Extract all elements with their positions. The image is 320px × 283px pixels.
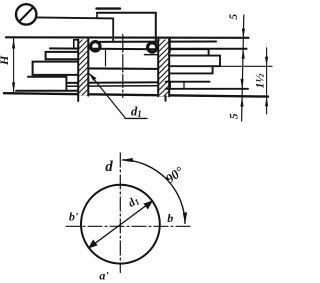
reference line for 1half [220,65,272,67]
clamp joint wire [96,13,98,18]
diameter arrow lower-left [88,240,98,249]
dim A arrow down at bottom ref [241,79,244,89]
diameter d1 arrow line [89,201,152,248]
indicator needle [20,8,33,21]
left step rect2 [33,62,89,75]
arc arrow right (points down) [183,212,187,224]
right rim edge vertical [169,38,171,53]
right bar2 [169,56,220,67]
middle line lower a [66,81,169,84]
right lower line b (bottom ref) [166,88,248,90]
right lower vertical 2 [183,82,185,89]
leader arrowhead [89,73,97,81]
stand bracket horizontal wire [97,12,156,14]
dim A arrow up at rim line [242,49,245,59]
right bar1 [170,49,209,55]
middle line lower b [66,85,158,88]
right lower vertical 1 [169,82,171,89]
svg-text:5: 5 [228,113,240,119]
vertical centerline [119,153,121,273]
leader shelf [125,117,147,119]
svg-text:d1: d1 [131,105,142,120]
right rim second line [170,48,247,50]
svg-text:1½: 1½ [253,74,267,89]
horizontal centerline [66,225,193,227]
svg-text:d: d [105,159,113,175]
top surface line [6,36,249,39]
small ear rect at left wall top [74,40,79,49]
dim B arrow down at ref line [265,57,268,67]
svg-text:b': b' [69,210,79,224]
svg-text:H: H [0,55,11,66]
svg-text:5: 5 [228,14,240,20]
leader d1 [90,74,126,118]
stand top tick [97,7,121,9]
ring boss at left wall [91,42,100,51]
svg-text:d1: d1 [126,194,141,210]
right bar3 [170,66,213,73]
dim B arrow up at base [265,97,268,107]
right lower line a [166,81,210,83]
hatched wall right (section) [158,39,169,101]
part top face line [99,41,216,43]
fillet blob at right wall [148,43,157,52]
dimension line B (1half) [266,48,268,114]
base line [4,93,268,96]
arc arrow top (points left) [121,158,133,162]
dimension H arrow down [12,82,15,92]
indicator plunger wire [112,18,114,41]
hidden dash [105,51,107,67]
middle line mid axis [88,67,169,70]
left step line upper [50,47,158,50]
short ledge under right ring [145,54,158,56]
left step rect1 [46,52,78,59]
dim A arrow up at base [240,97,243,107]
indicator arm wire [37,17,114,18]
dim A arrow down at top line [242,29,245,39]
90 degree arc [123,160,185,224]
dimension H line [13,39,15,93]
stand bracket vertical wire [155,13,157,42]
dimension line A (5 top / 5 bottom) [242,15,244,121]
dimension H arrow up [12,38,15,48]
bolt circle [81,185,160,264]
dial indicator gauge circle [16,4,36,24]
diameter arrow upper-right [143,200,153,209]
svg-text:90°: 90° [163,163,187,186]
svg-text:a': a' [99,269,109,283]
part vertical centerline [122,35,124,98]
hatched wall left (section) [78,39,88,101]
svg-text:b: b [167,211,173,225]
left step rect3 [28,76,66,78]
